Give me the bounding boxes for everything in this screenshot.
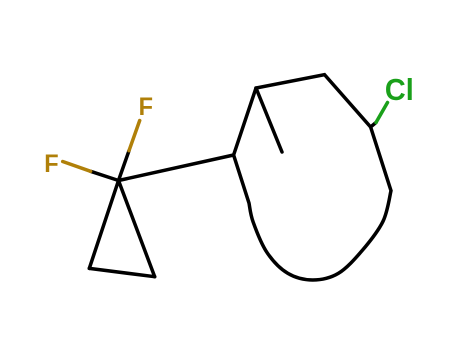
- wire: bond C-F top (orange half): [129, 121, 140, 151]
- wire: inner leg from top-left vertex: [256, 88, 282, 152]
- wire: bond C-Cl (black half): [371, 123, 376, 128]
- wire: bond C-F left (black half): [91, 171, 119, 180]
- wire: cyclopropane bottom edge: [89, 268, 154, 276]
- svg-text:F: F: [139, 93, 153, 121]
- wire: bond C-F left (orange half): [63, 162, 91, 172]
- wire: cyclopropane left edge: [89, 181, 118, 269]
- wire: bond C-F top (black half): [119, 151, 130, 181]
- svg-text:F: F: [44, 150, 58, 178]
- wire: cyclopropane right edge: [119, 181, 155, 277]
- wire: bond C-Cl (green half): [376, 103, 388, 123]
- svg-text:Cl: Cl: [385, 73, 414, 107]
- wire: long bond CF2 to ring: [119, 155, 234, 181]
- ring outline (aromatic ring with rounded bottom): [234, 75, 391, 280]
